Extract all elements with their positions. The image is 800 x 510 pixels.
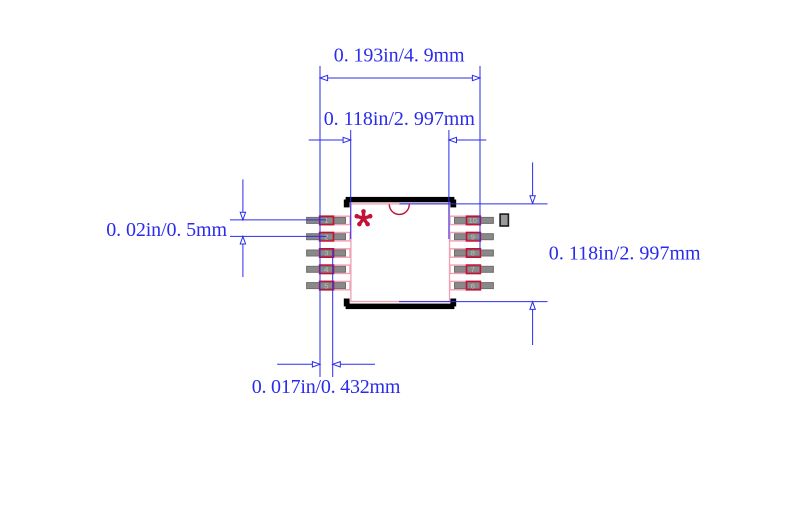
pin 1 orientation notch [389,204,409,214]
pin 4 [307,265,350,273]
pin 9 [450,233,493,241]
pin 2 [307,233,350,241]
svg-text:0. 118in/2. 997mm: 0. 118in/2. 997mm [549,243,701,265]
dimension: body height 0.118in/2.997mm right [399,162,548,345]
svg-text:0. 02in/0. 5mm: 0. 02in/0. 5mm [106,219,227,241]
svg-text:10: 10 [469,216,477,225]
svg-text:7: 7 [471,265,475,274]
pin 1 marker asterisk [355,209,373,226]
svg-text:0. 017in/0. 432mm: 0. 017in/0. 432mm [252,376,401,398]
dimension: pin pitch 0.02in/0.5mm [230,179,326,277]
svg-text:9: 9 [471,232,475,241]
svg-text:0. 118in/2. 997mm: 0. 118in/2. 997mm [324,108,476,130]
svg-text:1: 1 [324,216,328,225]
bottom body bar [344,299,456,310]
top body bar [344,197,456,208]
dimension: overall width 0.193in/4.9mm [320,66,480,377]
dimension: body width 0.118in/2.997mm [309,130,487,239]
svg-text:6: 6 [471,281,475,290]
pin 6 [450,281,493,289]
pin 3 [307,249,350,257]
pin 10 [450,216,493,224]
package body outline [351,204,450,302]
svg-text:8: 8 [471,249,475,258]
pin 5 [307,281,350,289]
dimension: pad width 0.017in/0.432mm [277,249,375,377]
svg-text:3: 3 [324,249,328,258]
svg-text:5: 5 [324,281,328,290]
pin 8 [450,249,493,257]
lead-frame index square [500,214,508,226]
pin 7 [450,265,493,273]
svg-text:0. 193in/4. 9mm: 0. 193in/4. 9mm [334,45,465,67]
pin 1 [307,216,350,224]
svg-text:4: 4 [324,265,328,274]
